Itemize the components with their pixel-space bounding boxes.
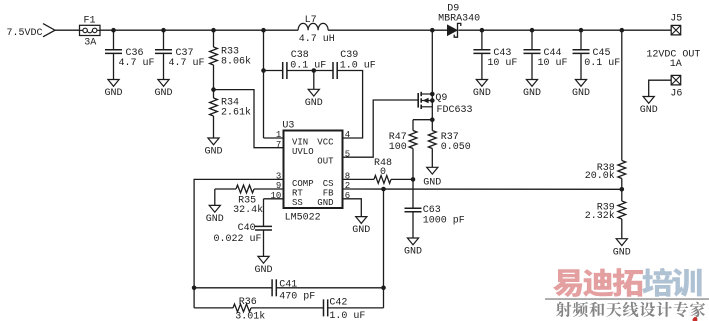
resistor R35 32.4k — [215, 185, 284, 216]
svg-text:470 pF: 470 pF — [279, 291, 315, 302]
svg-text:GND: GND — [523, 88, 541, 99]
ground C45 — [572, 80, 590, 100]
wire FB line — [343, 188, 622, 190]
wire GND pin6 — [343, 199, 362, 217]
svg-text:C42: C42 — [329, 298, 347, 309]
wire C38 to mid node — [287, 70, 333, 72]
resistor R37 0.050 — [428, 120, 470, 168]
svg-text:R36: R36 — [239, 297, 257, 308]
svg-text:CS: CS — [323, 179, 334, 189]
svg-text:MBRA340: MBRA340 — [438, 13, 480, 24]
junction comp right — [381, 286, 386, 291]
svg-text:10 uF: 10 uF — [538, 58, 568, 69]
svg-text:GND: GND — [254, 265, 272, 276]
wire J6 to ground — [649, 80, 672, 96]
svg-text:0: 0 — [380, 167, 386, 178]
capacitor C40 0.022uF — [213, 199, 283, 257]
resistor R34 2.61k — [210, 90, 251, 138]
svg-text:1000 pF: 1000 pF — [423, 215, 465, 226]
svg-text:C40: C40 — [238, 223, 256, 234]
svg-text:4.7 uF: 4.7 uF — [119, 58, 155, 69]
wire input to fuse — [55, 29, 80, 31]
svg-text:8.06k: 8.06k — [221, 55, 251, 67]
connector J6 — [670, 75, 682, 99]
svg-text:0.022 uF: 0.022 uF — [213, 234, 261, 245]
wire OUT pin5 to Q9 gate — [343, 100, 419, 157]
svg-text:GND: GND — [206, 214, 224, 225]
watermark underline — [545, 298, 709, 300]
svg-text:GND: GND — [404, 247, 422, 258]
svg-text:J5: J5 — [670, 14, 682, 25]
svg-text:C41: C41 — [279, 279, 297, 290]
junction C44 — [530, 28, 535, 33]
svg-text:GND: GND — [572, 88, 590, 99]
svg-text:20.0k: 20.0k — [585, 170, 615, 182]
U3 pin numbers — [270, 130, 350, 201]
resistor R38 20.0k — [585, 30, 626, 189]
label 12VDC OUT — [646, 49, 700, 70]
svg-text:2.61k: 2.61k — [221, 106, 251, 118]
svg-text:3.01k: 3.01k — [235, 311, 265, 321]
wire VIN column — [264, 30, 284, 138]
junction CS/R47/C63 — [411, 177, 416, 182]
svg-text:F1: F1 — [84, 16, 96, 27]
svg-text:32.4k: 32.4k — [233, 204, 263, 216]
capacitor C63 1000pF — [405, 179, 465, 238]
svg-text:GND: GND — [640, 105, 658, 116]
capacitor C45 0.1 uF — [573, 30, 621, 79]
connector J5 — [670, 14, 682, 35]
svg-text:0.1 uF: 0.1 uF — [584, 58, 620, 69]
junction comp left — [192, 286, 197, 291]
watermark red corner mark — [693, 317, 698, 321]
svg-text:1: 1 — [276, 130, 281, 140]
svg-text:GND: GND — [317, 198, 333, 208]
svg-text:GND: GND — [352, 225, 370, 236]
svg-text:VIN: VIN — [292, 137, 308, 147]
ground C40 — [254, 256, 272, 276]
ground R37 — [423, 167, 441, 188]
resistor R33 8.06k — [210, 30, 251, 89]
wire diode to J5 — [458, 29, 671, 31]
wire C39 to VCC pin4 — [337, 71, 362, 139]
junction C43 — [480, 28, 485, 33]
junction C45 — [579, 28, 584, 33]
svg-text:4.7 uH: 4.7 uH — [299, 34, 335, 45]
svg-text:GND: GND — [423, 178, 441, 189]
ground R35 — [206, 205, 224, 225]
wire Q9 source to R47 — [413, 119, 432, 121]
junction C37 — [161, 28, 166, 33]
junction VIN column — [261, 28, 266, 33]
wire to C38 — [264, 70, 283, 72]
svg-text:5: 5 — [345, 149, 350, 159]
wire R36/C42 line — [194, 307, 383, 309]
svg-text:1.0 uF: 1.0 uF — [329, 311, 365, 321]
ground R34 — [204, 138, 222, 158]
svg-text:GND: GND — [204, 147, 222, 158]
junction C38 tee — [261, 68, 266, 73]
svg-text:1A: 1A — [670, 59, 682, 70]
capacitor C38 0.1uF — [283, 50, 327, 79]
ground C37 — [154, 80, 172, 100]
svg-text:4.7 uF: 4.7 uF — [169, 58, 205, 69]
capacitor C41 470pF — [272, 279, 315, 302]
capacitor C36 4.7uF — [105, 30, 155, 79]
watermark title 易迪拓培训 — [553, 268, 702, 297]
wire COMP pin3 loop — [194, 179, 283, 308]
svg-text:10 uF: 10 uF — [487, 58, 517, 69]
svg-text:1.0 uF: 1.0 uF — [340, 60, 376, 71]
svg-text:GND: GND — [473, 88, 491, 99]
svg-text:FDC633: FDC633 — [437, 105, 473, 116]
svg-text:100: 100 — [389, 142, 407, 153]
junction Q9 drain — [430, 28, 435, 33]
transistor Q9 FDC633 — [418, 30, 472, 120]
junction FB/compensation — [381, 187, 386, 192]
ground R39 — [613, 239, 631, 259]
svg-text:GND: GND — [613, 247, 631, 258]
svg-text:GND: GND — [305, 98, 323, 109]
junction Q9 source — [430, 117, 435, 122]
ground J6 — [640, 97, 658, 117]
ground C63 — [404, 238, 422, 258]
node R33/R34 divider — [211, 87, 216, 92]
svg-text:0.050: 0.050 — [441, 142, 471, 153]
ground C36 — [104, 80, 122, 100]
junction R38 column — [620, 28, 625, 33]
wire compensation vertical — [383, 189, 385, 308]
resistor R39 2.32k — [585, 189, 626, 238]
junction C36 — [111, 28, 116, 33]
svg-text:GND: GND — [154, 88, 172, 99]
resistor R47 100 — [389, 120, 417, 180]
svg-text:7: 7 — [276, 140, 281, 150]
wire divider to UVLO pin7 — [214, 90, 284, 148]
ground C44 — [523, 80, 541, 100]
ground C43 — [473, 80, 491, 100]
svg-text:U3: U3 — [282, 121, 294, 132]
ground U3 pin6 — [352, 217, 370, 237]
diode D9 MBRA340 — [438, 4, 480, 38]
svg-text:GND: GND — [104, 88, 122, 99]
capacitor C42 1.0uF — [324, 298, 366, 321]
fuse F1 3A — [80, 16, 101, 49]
svg-text:Q9: Q9 — [435, 93, 447, 104]
junction R33 — [211, 28, 216, 33]
svg-text:RT: RT — [292, 188, 303, 198]
watermark subtitle 射频和天线设计专家 — [556, 302, 705, 318]
inductor L7 4.7uH — [298, 15, 335, 45]
junction C38/C39 ground tee — [312, 68, 317, 73]
wire C41 line — [194, 287, 383, 289]
capacitor C39 1.0uF — [333, 50, 376, 79]
svg-text:2.32k: 2.32k — [585, 210, 615, 222]
svg-text:SS: SS — [292, 198, 303, 208]
svg-text:COMP: COMP — [292, 179, 314, 189]
svg-text:UVLO: UVLO — [292, 147, 314, 157]
resistor R48 0 on CS line — [343, 158, 414, 183]
op-amp U3 LM5022 box — [282, 121, 342, 224]
capacitor C43 10 uF — [473, 30, 517, 79]
svg-text:3A: 3A — [84, 37, 96, 48]
svg-text:J6: J6 — [670, 89, 682, 100]
junction FB/R38/R39 — [620, 187, 625, 192]
wire L7 to diode — [328, 29, 447, 31]
svg-text:7.5VDC: 7.5VDC — [7, 28, 43, 39]
svg-text:LM5022: LM5022 — [285, 213, 321, 224]
svg-text:4: 4 — [345, 130, 350, 140]
capacitor C37 4.7uF — [155, 30, 205, 79]
svg-text:VCC: VCC — [317, 137, 334, 147]
U3 pin names — [292, 137, 334, 208]
svg-text:L7: L7 — [305, 15, 317, 26]
capacitor C44 10 uF — [524, 30, 568, 79]
svg-text:FB: FB — [323, 188, 334, 198]
svg-text:0.1 uF: 0.1 uF — [290, 60, 326, 71]
resistor R36 3.01k — [233, 297, 265, 321]
svg-text:OUT: OUT — [317, 157, 334, 167]
input port 7.5VDC — [7, 24, 56, 39]
ground mid C38/C39 — [305, 71, 323, 109]
wire fuse to L7 — [100, 29, 298, 31]
